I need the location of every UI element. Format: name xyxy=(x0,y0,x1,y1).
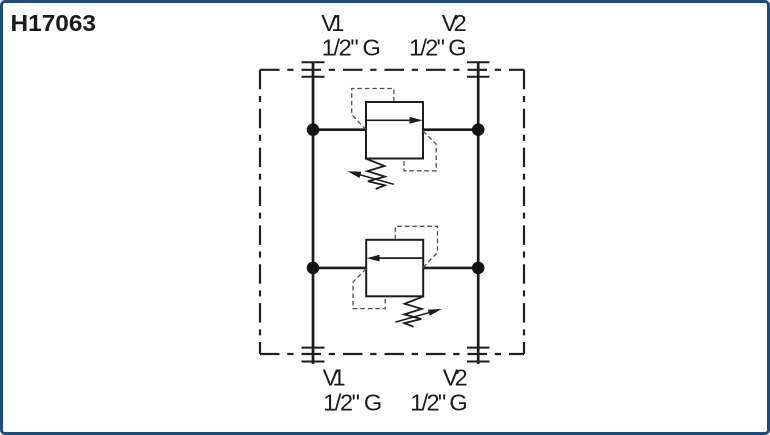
svg-text:1/2" G: 1/2" G xyxy=(409,35,467,61)
svg-text:1/2" G: 1/2" G xyxy=(323,389,382,415)
svg-text:V2: V2 xyxy=(443,365,468,391)
svg-text:V1: V1 xyxy=(321,10,344,36)
svg-text:1/2" G: 1/2" G xyxy=(322,35,381,61)
svg-text:V2: V2 xyxy=(442,10,467,36)
svg-text:V1: V1 xyxy=(323,365,346,391)
svg-text:H17063: H17063 xyxy=(11,10,97,36)
svg-text:1/2" G: 1/2" G xyxy=(410,389,468,415)
